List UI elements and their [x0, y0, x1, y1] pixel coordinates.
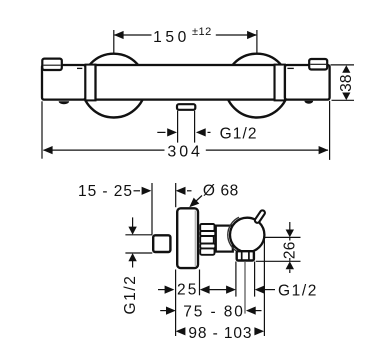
svg-text:G1/2: G1/2 — [278, 283, 318, 300]
svg-text:75 - 80: 75 - 80 — [183, 304, 245, 321]
svg-text:38: 38 — [338, 74, 355, 91]
svg-text:150: 150 — [153, 29, 190, 46]
svg-text:Ø 68: Ø 68 — [203, 182, 239, 199]
svg-text:G1/2: G1/2 — [220, 125, 258, 142]
svg-text:26: 26 — [281, 241, 298, 259]
svg-text:25: 25 — [177, 282, 199, 299]
svg-text:98 - 103: 98 - 103 — [188, 325, 252, 342]
svg-text:15 - 25: 15 - 25 — [78, 183, 133, 200]
svg-text:±12: ±12 — [192, 26, 212, 38]
svg-text:G1/2: G1/2 — [122, 274, 139, 314]
svg-text:304: 304 — [167, 143, 202, 160]
